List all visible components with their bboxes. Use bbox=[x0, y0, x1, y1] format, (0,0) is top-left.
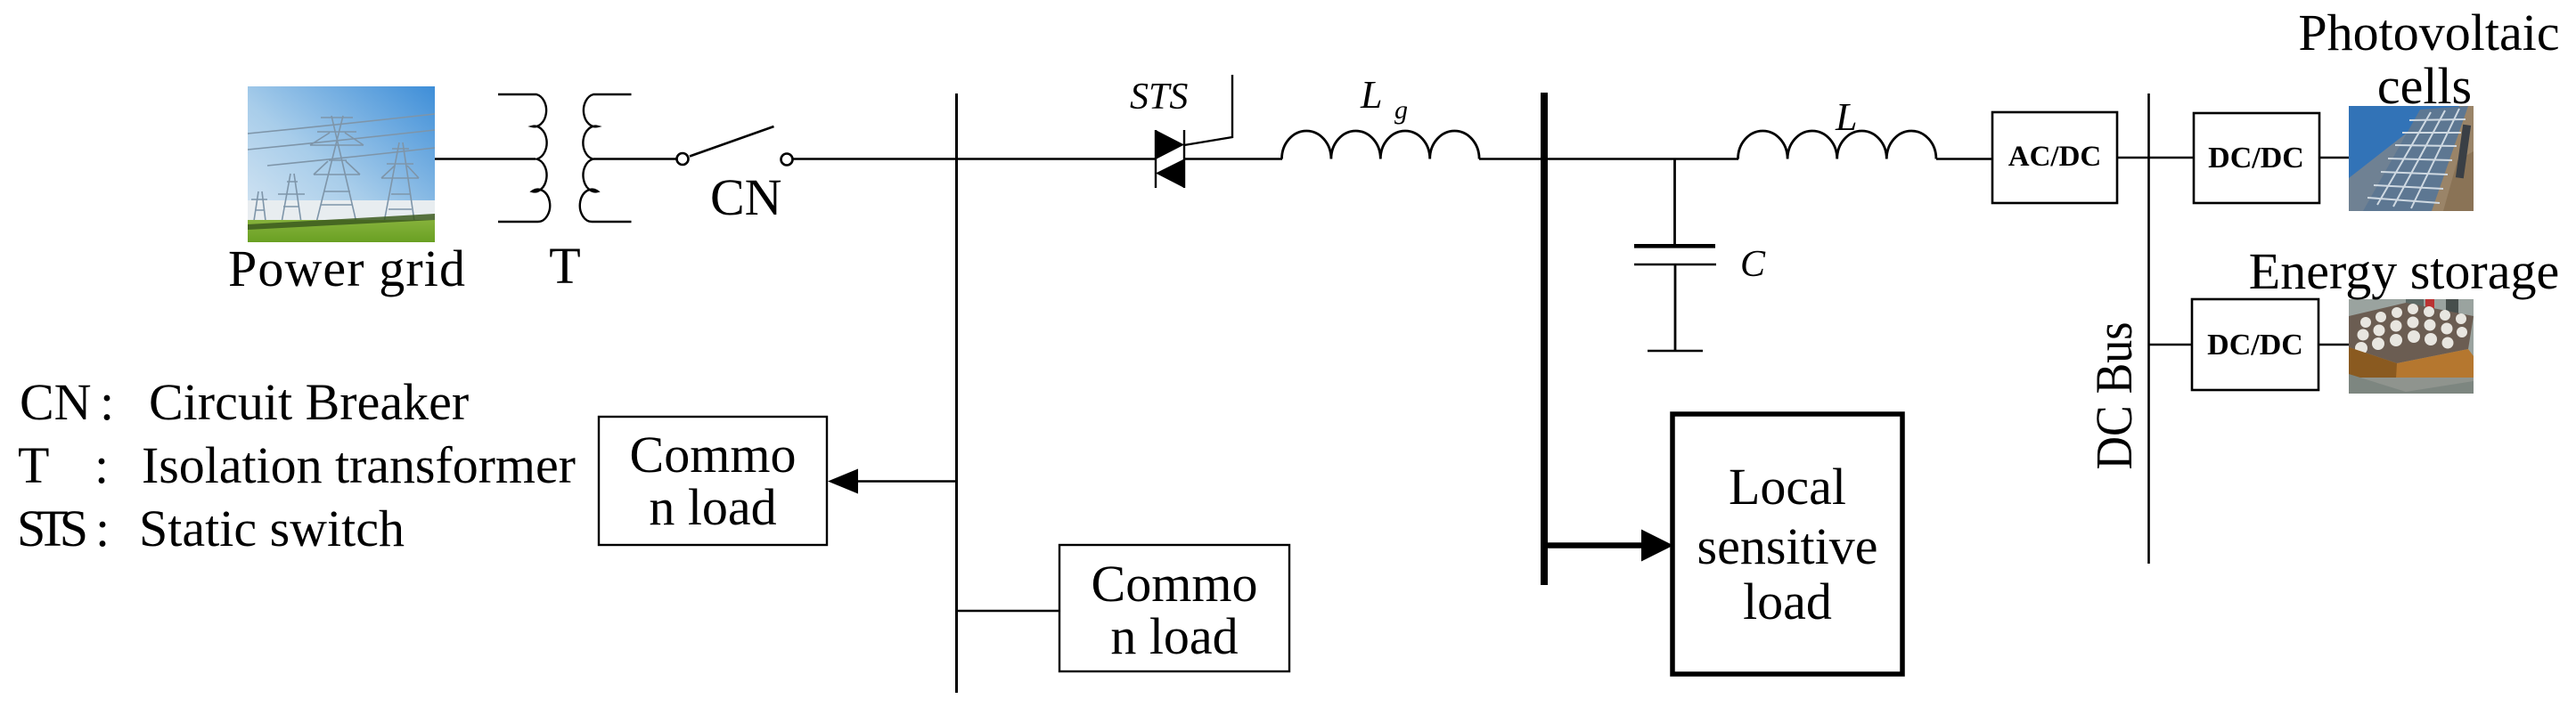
wire bus1 to common load 2 bbox=[958, 610, 1059, 612]
svg-text::: : bbox=[94, 436, 109, 494]
svg-text:Static switch: Static switch bbox=[139, 500, 405, 557]
svg-text:load: load bbox=[1743, 573, 1832, 630]
svg-text:sensitive: sensitive bbox=[1697, 517, 1878, 575]
capacitor C branch bbox=[1673, 159, 1676, 247]
svg-text:Power grid: Power grid bbox=[228, 240, 465, 297]
arrow bus1 to common load 1 bbox=[857, 480, 956, 482]
svg-text:T: T bbox=[549, 237, 580, 295]
transformer T primary winding bbox=[498, 94, 550, 222]
load box local sensitive load bbox=[1672, 414, 1902, 674]
svg-text:Circuit Breaker: Circuit Breaker bbox=[149, 373, 469, 431]
circuit breaker CN bbox=[677, 153, 689, 165]
wire STS to Lg bbox=[1184, 158, 1282, 159]
converter DC/DC box 1 bbox=[2194, 113, 2319, 203]
thick arrow bus2 to local sensitive load bbox=[1548, 542, 1645, 549]
photovoltaic cells photo bbox=[2349, 106, 2474, 211]
svg-text:DC/DC: DC/DC bbox=[2208, 142, 2304, 175]
svg-text:C: C bbox=[1740, 244, 1766, 285]
load box common load 1 bbox=[599, 417, 827, 545]
svg-text:T: T bbox=[18, 436, 49, 494]
svg-text:Local: Local bbox=[1729, 458, 1846, 516]
energy storage photo bbox=[2349, 299, 2474, 394]
svg-text:Energy storage: Energy storage bbox=[2249, 242, 2559, 300]
transformer T secondary winding bbox=[580, 94, 632, 222]
load box common load 2 bbox=[1059, 545, 1289, 671]
svg-text:n load: n load bbox=[1110, 607, 1238, 665]
DC bus line bbox=[2147, 93, 2150, 564]
svg-text:cells: cells bbox=[2377, 57, 2472, 115]
svg-text:DC Bus: DC Bus bbox=[2085, 322, 2143, 470]
wire DC bus to DC/DC 2 bbox=[2149, 344, 2192, 345]
wire transformer to breaker bbox=[593, 158, 676, 159]
wire DC/DC 2 to battery bbox=[2318, 344, 2349, 345]
wire DC bus to DC/DC 1 bbox=[2149, 157, 2194, 158]
svg-text:Photovoltaic: Photovoltaic bbox=[2298, 4, 2559, 61]
wire breaker to STS bbox=[793, 158, 1156, 159]
inductor L bbox=[1738, 131, 1936, 159]
svg-text:STS: STS bbox=[17, 500, 88, 557]
wire L to AC/DC bbox=[1936, 158, 1992, 159]
static switch STS triac bbox=[1156, 75, 1232, 188]
svg-text::: : bbox=[95, 500, 110, 557]
svg-text:L: L bbox=[1360, 73, 1382, 117]
wire photo to transformer bbox=[435, 158, 536, 159]
power grid photo bbox=[248, 86, 435, 242]
svg-text:AC/DC: AC/DC bbox=[2008, 141, 2102, 173]
svg-text:CN: CN bbox=[710, 168, 782, 226]
svg-text:g: g bbox=[1394, 95, 1408, 125]
converter AC/DC box bbox=[1992, 112, 2117, 203]
svg-text:DC/DC: DC/DC bbox=[2207, 329, 2303, 362]
AC bus 1 bbox=[955, 93, 958, 693]
AC bus 2 (thick) bbox=[1541, 93, 1548, 585]
svg-text:Isolation transformer: Isolation transformer bbox=[142, 436, 576, 494]
wire AC/DC to DC bus bbox=[2117, 157, 2148, 158]
svg-text:Commo: Commo bbox=[1092, 555, 1258, 613]
svg-text::: : bbox=[100, 373, 114, 431]
wire Lg to bus2 bbox=[1479, 158, 1541, 159]
wire DC/DC 1 to PV bbox=[2319, 157, 2349, 158]
converter DC/DC box 2 bbox=[2192, 299, 2318, 390]
svg-text:Commo: Commo bbox=[630, 426, 797, 484]
svg-text:L: L bbox=[1835, 95, 1857, 139]
wire bus2 to filter bbox=[1548, 158, 1738, 159]
inductor Lg bbox=[1282, 131, 1480, 159]
svg-text:STS: STS bbox=[1130, 77, 1188, 118]
svg-text:CN: CN bbox=[20, 373, 92, 431]
svg-text:n load: n load bbox=[649, 478, 776, 536]
